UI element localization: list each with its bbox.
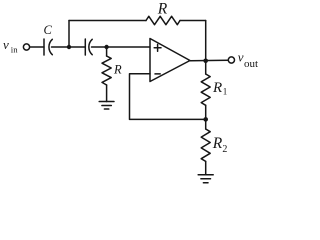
op-amp minus sign	[155, 73, 160, 75]
wire vin to C1	[30, 46, 44, 48]
wire node C down to R2	[205, 119, 207, 129]
resistor R vertical zigzag	[102, 56, 111, 85]
svg-text:R: R	[157, 1, 168, 18]
wire R1 to node C	[205, 105, 207, 119]
resistor R2 zigzag	[201, 129, 210, 161]
svg-text:v: v	[238, 50, 244, 65]
svg-text:out: out	[244, 58, 258, 70]
capacitor 2 plate left	[84, 39, 86, 55]
feedback wire to inverting input	[130, 74, 206, 120]
capacitor C curved plate	[49, 39, 52, 54]
ground (right)	[198, 174, 213, 176]
output node	[203, 59, 208, 64]
wire rail down to output node	[205, 21, 207, 61]
wire C1 to C2	[52, 46, 86, 48]
top rail right	[180, 20, 206, 22]
node C (R1/R2 junction)	[203, 117, 208, 122]
wire R to ground	[106, 85, 108, 102]
node B	[104, 45, 108, 49]
node A	[67, 45, 71, 49]
capacitor 2 curved plate	[89, 39, 92, 54]
ground (left)	[99, 101, 114, 103]
svg-text:2: 2	[222, 144, 227, 155]
top rail left	[69, 20, 146, 22]
wire C2 to op-amp + input	[92, 46, 151, 48]
output terminal vout	[228, 57, 234, 63]
resistor R1 zigzag	[201, 74, 210, 105]
input terminal vin	[23, 44, 29, 50]
svg-text:R: R	[212, 80, 222, 96]
capacitor C plate left	[43, 39, 45, 55]
svg-text:v: v	[3, 37, 9, 52]
output wire	[190, 59, 228, 61]
op-amp U1 triangle	[150, 39, 190, 82]
wire node B down to R	[106, 47, 108, 56]
svg-text:R: R	[113, 63, 122, 77]
op-amp plus sign	[154, 47, 161, 49]
svg-text:C: C	[44, 23, 53, 37]
wire node A up	[68, 21, 70, 48]
wire output node down to R1	[205, 61, 207, 74]
svg-text:1: 1	[223, 87, 228, 97]
resistor R top zigzag	[146, 16, 180, 24]
svg-text:R: R	[212, 135, 223, 152]
svg-text:in: in	[11, 45, 18, 55]
wire R2 to ground	[205, 161, 207, 174]
